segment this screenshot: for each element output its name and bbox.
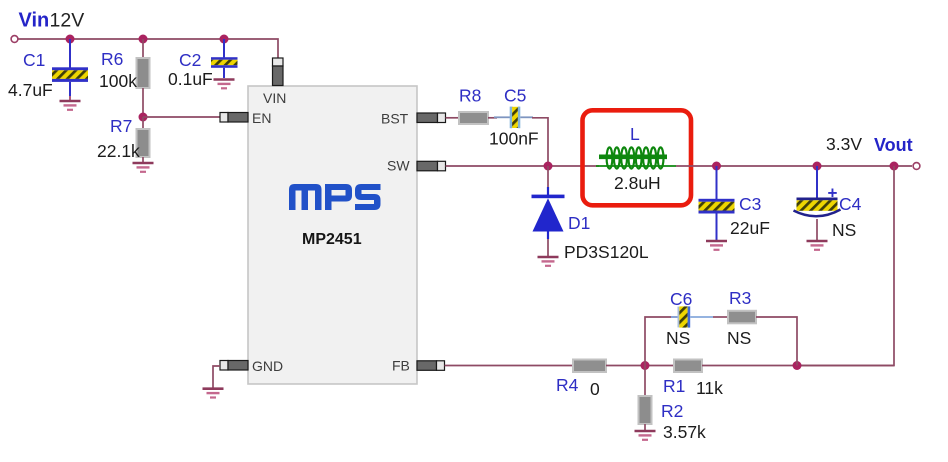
resistor R7 bbox=[137, 117, 150, 162]
capacitor C1 bbox=[52, 39, 88, 100]
svg-text:PD3S120L: PD3S120L bbox=[564, 242, 649, 262]
svg-text:+: + bbox=[828, 184, 838, 203]
svg-text:C1: C1 bbox=[23, 50, 45, 70]
resistor R3 bbox=[728, 311, 756, 324]
wire FB to R4 bbox=[445, 365, 574, 367]
svg-text:NS: NS bbox=[727, 328, 751, 348]
svg-text:FB: FB bbox=[392, 358, 410, 374]
IC U1 MP2451 body bbox=[248, 86, 417, 384]
svg-text:D1: D1 bbox=[568, 213, 590, 233]
node junction C4 bbox=[813, 162, 822, 171]
svg-text:C6: C6 bbox=[670, 289, 692, 309]
svg-text:SW: SW bbox=[387, 158, 410, 174]
pin VIN bbox=[273, 58, 284, 86]
svg-text:12V: 12V bbox=[50, 10, 85, 32]
svg-text:BST: BST bbox=[381, 111, 409, 127]
capacitor C2 bbox=[211, 39, 238, 78]
svg-text:R8: R8 bbox=[459, 86, 481, 106]
resistor R2 bbox=[639, 366, 652, 431]
logo MPS bbox=[289, 184, 381, 210]
svg-text:0.1uF: 0.1uF bbox=[168, 69, 213, 89]
node junction Vout bbox=[890, 162, 899, 171]
svg-text:R4: R4 bbox=[556, 375, 579, 395]
wire SW rail right of L bbox=[676, 165, 912, 167]
inductor L bbox=[596, 147, 676, 168]
svg-text:EN: EN bbox=[252, 110, 271, 126]
pin SW bbox=[417, 161, 446, 171]
resistor R1 bbox=[674, 360, 702, 373]
svg-text:C2: C2 bbox=[179, 50, 201, 70]
svg-text:2.8uH: 2.8uH bbox=[614, 173, 661, 193]
svg-text:MP2451: MP2451 bbox=[302, 231, 362, 248]
wire R8 to C5 bbox=[488, 117, 497, 119]
svg-text:R3: R3 bbox=[729, 288, 751, 308]
node junction FB divider bbox=[641, 361, 650, 370]
capacitor C4 polarized bbox=[794, 166, 841, 240]
svg-text:22uF: 22uF bbox=[730, 218, 770, 238]
svg-text:R1: R1 bbox=[663, 376, 685, 396]
pin EN bbox=[220, 113, 248, 123]
node junction C2/rail bbox=[220, 35, 229, 44]
wire EN bbox=[143, 116, 220, 118]
wire R3 down to right node bbox=[756, 317, 797, 366]
svg-text:22.1k: 22.1k bbox=[97, 141, 140, 161]
svg-text:VIN: VIN bbox=[263, 90, 286, 106]
ground C3 bbox=[706, 241, 727, 250]
svg-text:NS: NS bbox=[666, 328, 690, 348]
ground C2 bbox=[214, 80, 235, 89]
wire BST to R8 bbox=[446, 117, 460, 119]
pin FB bbox=[417, 361, 445, 371]
wire SW rail bbox=[446, 165, 600, 167]
svg-text:3.3V: 3.3V bbox=[826, 134, 862, 154]
diode D1 bbox=[532, 166, 565, 256]
node junction R6/R7/EN bbox=[139, 113, 148, 122]
ground R2 bbox=[635, 431, 656, 440]
svg-text:11k: 11k bbox=[696, 378, 723, 398]
svg-text:C5: C5 bbox=[504, 86, 526, 106]
svg-text:4.7uF: 4.7uF bbox=[8, 80, 53, 100]
pin GND bbox=[220, 361, 248, 371]
ground R7 bbox=[133, 163, 154, 172]
wire Vout down to FB network bbox=[797, 166, 894, 366]
ground GND pin bbox=[203, 389, 224, 398]
node junction R6/rail bbox=[139, 35, 148, 44]
svg-text:100nF: 100nF bbox=[489, 129, 539, 149]
capacitor C6 bbox=[671, 306, 713, 327]
node junction right divider bbox=[793, 361, 802, 370]
svg-text:Vout: Vout bbox=[874, 135, 913, 155]
svg-text:Vin: Vin bbox=[19, 10, 50, 32]
svg-text:R2: R2 bbox=[661, 401, 683, 421]
svg-text:GND: GND bbox=[252, 358, 283, 374]
svg-text:C3: C3 bbox=[739, 194, 761, 214]
highlight box around L bbox=[583, 110, 692, 205]
ground C1 bbox=[60, 101, 81, 110]
terminal Vout bbox=[913, 163, 920, 170]
wire R1 to right node bbox=[702, 365, 894, 367]
wire top rail Vin bbox=[18, 39, 278, 59]
svg-text:NS: NS bbox=[832, 220, 856, 240]
svg-text:0: 0 bbox=[590, 379, 600, 399]
wire R4 to FB node bbox=[606, 365, 674, 367]
svg-text:R7: R7 bbox=[110, 116, 132, 136]
svg-text:L: L bbox=[630, 124, 640, 144]
resistor R8 bbox=[459, 112, 488, 124]
wire GND pin to ground bbox=[213, 366, 220, 388]
svg-text:100k: 100k bbox=[99, 71, 137, 91]
ground C4 bbox=[807, 241, 828, 250]
svg-text:3.57k: 3.57k bbox=[663, 422, 706, 442]
pin BST bbox=[417, 113, 446, 123]
wire C6 to R3 bbox=[713, 316, 728, 318]
wire C6/R3 branch bbox=[645, 317, 677, 366]
terminal Vin input bbox=[11, 36, 18, 43]
node junction SW/D1 bbox=[544, 162, 553, 171]
wire C5 to SW node bbox=[532, 118, 548, 166]
node junction C1/rail bbox=[66, 35, 75, 44]
ground D1 bbox=[538, 257, 559, 266]
resistor R4 bbox=[573, 360, 606, 373]
svg-text:C4: C4 bbox=[839, 194, 862, 214]
svg-text:R6: R6 bbox=[101, 49, 123, 69]
resistor R6 bbox=[137, 39, 150, 117]
node junction C3 bbox=[712, 162, 721, 171]
capacitor C3 bbox=[699, 166, 735, 240]
capacitor C5 bbox=[494, 107, 533, 129]
